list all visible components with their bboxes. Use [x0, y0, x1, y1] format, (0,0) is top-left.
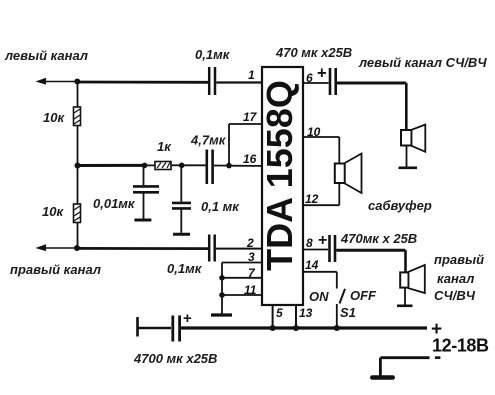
wire R1 node to R2: [77, 166, 79, 205]
pin 16 label: [243, 152, 257, 166]
svg-text:3: 3: [248, 250, 255, 264]
speaker right tweeter: [400, 265, 425, 293]
svg-text:2: 2: [246, 236, 254, 250]
value label 0,1mk C5: [167, 261, 203, 276]
wire middle thick segment: [78, 164, 145, 167]
right input arrow: [35, 244, 77, 251]
value label 10k R2: [42, 204, 64, 219]
wire C5 to pin2: [216, 248, 262, 250]
svg-text:СЧ/ВЧ: СЧ/ВЧ: [434, 288, 476, 303]
value label 470mk x 25V C7: [340, 231, 417, 246]
value label 4700mk x25V C8: [133, 351, 217, 366]
wire to pin 17: [229, 124, 262, 166]
svg-text:1к: 1к: [157, 139, 172, 154]
label right channel input: [10, 262, 101, 277]
svg-text:OFF: OFF: [350, 288, 377, 303]
ground right tweeter: [397, 288, 413, 306]
capacitor C4 0,1 mk: [172, 165, 191, 233]
speaker subwoofer: [335, 154, 362, 194]
node junction left input: [74, 79, 80, 85]
pin 17 label: [243, 110, 258, 124]
svg-text:6: 6: [306, 71, 313, 85]
svg-text:4,7мк: 4,7мк: [190, 133, 227, 148]
wire right input to C5: [77, 247, 209, 250]
pin 7 label: [248, 266, 256, 280]
svg-text:канал: канал: [437, 271, 474, 286]
pin 11 label: [244, 283, 257, 297]
ground left tweeter: [399, 146, 418, 168]
label left channel input: [4, 48, 88, 63]
svg-text:10: 10: [307, 125, 321, 139]
wire pin 7: [222, 277, 262, 279]
wire to R3: [145, 164, 155, 166]
label plus supply: [431, 319, 442, 340]
capacitor C6 470mk: [330, 68, 336, 95]
polarity plus C6: [317, 65, 327, 83]
svg-text:13: 13: [299, 306, 313, 320]
node junction pins 16/17: [226, 163, 232, 169]
pin 6 label: [306, 71, 313, 85]
label subwoofer: [368, 198, 432, 213]
svg-text:сабвуфер: сабвуфер: [368, 198, 432, 213]
capacitor C5 0,1mk right input: [209, 235, 215, 262]
node junction middle left: [75, 163, 81, 169]
wire pin 10: [303, 137, 339, 164]
svg-text:+: +: [317, 65, 327, 83]
resistor R2 10k lower: [74, 204, 81, 223]
wire pin 12: [303, 183, 339, 205]
svg-text:5: 5: [276, 306, 283, 320]
svg-text:10к: 10к: [43, 110, 65, 125]
capacitor C7 470mk: [330, 235, 336, 262]
svg-text:1: 1: [248, 68, 255, 82]
switch S1 bottom wire: [336, 304, 338, 328]
svg-text:ON: ON: [309, 289, 329, 304]
value label 10k R1: [43, 110, 65, 125]
svg-text:11: 11: [244, 283, 257, 297]
value label 0,1 mk C4: [201, 199, 240, 214]
label left channel tweeter: [358, 55, 487, 70]
value label 470mk x25V C6: [275, 45, 352, 60]
ground C4: [173, 233, 190, 236]
value label 1k R3: [157, 139, 172, 154]
wire C7 to right tweeter: [336, 250, 405, 272]
speaker left tweeter: [401, 125, 425, 152]
svg-text:10к: 10к: [42, 204, 64, 219]
node junction right input: [74, 245, 80, 251]
pin 2 label: [246, 236, 254, 250]
node junction pin13 rail: [293, 325, 299, 331]
node junction pin11: [219, 292, 225, 298]
value label 4,7mk C2: [190, 133, 227, 148]
svg-text:12: 12: [305, 192, 319, 206]
svg-text:4700 мк х25В: 4700 мк х25В: [133, 351, 217, 366]
wire C4 tap to C2: [182, 164, 206, 166]
pin 8 label: [306, 236, 313, 250]
node junction C4 tap: [179, 163, 185, 169]
svg-text:правый канал: правый канал: [10, 262, 101, 277]
svg-text:16: 16: [243, 152, 257, 166]
svg-text:правый: правый: [434, 252, 484, 267]
svg-text:+: +: [318, 232, 327, 249]
wire R2 to right input node: [77, 223, 79, 249]
label supply voltage 12-18V: [432, 336, 489, 356]
pin 3 label: [248, 250, 255, 264]
terminal left end of rail: [136, 317, 139, 337]
wire pin 3: [222, 263, 262, 314]
wire pin 8: [303, 249, 328, 251]
pin 10 label: [307, 125, 321, 139]
node junction pin5 rail: [270, 325, 276, 331]
svg-text:+: +: [183, 310, 192, 327]
terminal negative bar: [372, 375, 392, 380]
wire pin 6: [303, 82, 329, 84]
ground pins 3-7-11: [211, 313, 232, 316]
wire R1 to middle node: [77, 126, 79, 166]
label right channel tweeter: [434, 252, 484, 303]
svg-text:S1: S1: [340, 305, 356, 320]
ground C3: [134, 219, 151, 222]
switch S1 blade: [340, 289, 346, 304]
wire pin 14 to switch: [303, 272, 337, 289]
svg-text:8: 8: [306, 236, 313, 250]
svg-text:левый канал: левый канал: [4, 48, 88, 63]
wire C2 to node: [214, 165, 229, 167]
svg-text:17: 17: [243, 110, 258, 124]
wire terminal to C8: [138, 327, 172, 329]
wire left input to C1: [77, 81, 209, 84]
polarity plus C8: [183, 310, 192, 327]
wire negative terminal: [380, 358, 429, 376]
svg-text:0,1мк: 0,1мк: [195, 47, 231, 62]
pin 1 label: [248, 68, 255, 82]
node junction C3 tap: [142, 163, 148, 169]
label OFF: [350, 288, 377, 303]
svg-text:0,1 мк: 0,1 мк: [201, 199, 240, 214]
capacitor C2 4,7mk: [207, 150, 213, 185]
svg-text:14: 14: [305, 258, 319, 272]
node junction switch rail: [334, 325, 340, 331]
capacitor C1 0,1mk left input: [209, 67, 215, 95]
resistor R1 10k upper: [74, 82, 81, 126]
svg-text:12-18В: 12-18В: [432, 336, 489, 356]
svg-text:470 мк х25В: 470 мк х25В: [275, 45, 352, 60]
IC U1 TDA1558Q: [259, 67, 303, 305]
node junction pin7: [219, 275, 225, 281]
left input arrow: [36, 78, 78, 85]
wire pin 11: [222, 294, 262, 296]
wire power rail: [181, 326, 427, 329]
svg-text:TDA 1558Q: TDA 1558Q: [259, 80, 300, 271]
capacitor C8 4700mk: [173, 316, 180, 342]
pin 13 label: [299, 306, 313, 320]
pin 5 label: [276, 306, 283, 320]
wire to pin 16: [229, 165, 262, 167]
svg-text:0,01мк: 0,01мк: [93, 196, 136, 211]
pin 14 label: [305, 258, 319, 272]
svg-text:левый канал СЧ/ВЧ: левый канал СЧ/ВЧ: [358, 55, 487, 70]
wire pin 13: [295, 305, 297, 328]
polarity plus C7: [318, 232, 327, 249]
label ON: [309, 289, 329, 304]
svg-text:0,1мк: 0,1мк: [167, 261, 203, 276]
label S1: [340, 305, 356, 320]
capacitor C3 0,01mk: [133, 165, 159, 218]
svg-text:470мк х 25В: 470мк х 25В: [340, 231, 417, 246]
pin 12 label: [305, 192, 319, 206]
wire C6 to left tweeter: [337, 83, 406, 130]
value label 0,01mk C3: [93, 196, 136, 211]
wire C1 to pin1: [216, 81, 262, 83]
wire R3 to C4 tap: [171, 164, 182, 166]
value label 0,1mk C1: [195, 47, 231, 62]
wire pin 5: [272, 305, 274, 328]
label minus supply: [435, 356, 441, 359]
resistor R3 1k: [155, 162, 171, 170]
